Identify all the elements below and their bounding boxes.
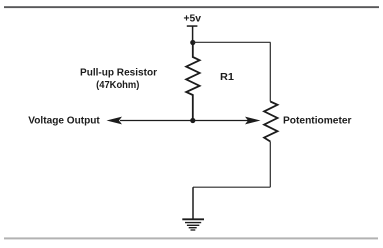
- wire: wiper line left segment: [120, 120, 193, 122]
- resistor R1 (zigzag): [186, 43, 199, 121]
- svg-text:Pull-up Resistor: Pull-up Resistor: [80, 66, 157, 78]
- wire: ground drop: [192, 187, 194, 219]
- wire: top horizontal from node A to right branch: [193, 41, 271, 43]
- wire: right vertical down to potentiometer top: [269, 42, 271, 101]
- svg-text:Voltage Output: Voltage Output: [28, 115, 100, 127]
- svg-text:(47Kohm): (47Kohm): [96, 79, 139, 91]
- +5v power terminal bar: [187, 25, 198, 27]
- wire: wiper line right segment: [193, 120, 249, 122]
- wire: potentiometer bottom down: [269, 142, 271, 188]
- svg-text:Potentiometer: Potentiometer: [283, 114, 352, 126]
- arrowhead right (to potentiometer wiper): [245, 117, 261, 125]
- wire: bottom horizontal to ground branch: [193, 186, 270, 188]
- svg-text:R1: R1: [220, 71, 234, 83]
- potentiometer (zigzag): [264, 102, 277, 142]
- arrowhead left (to Voltage Output): [107, 117, 123, 125]
- ground symbol: [182, 219, 204, 230]
- wire: +5v terminal down to node A: [192, 26, 194, 43]
- svg-text:+5v: +5v: [184, 12, 202, 24]
- node A junction dot (top of R1): [190, 40, 195, 45]
- node B junction dot (bottom of R1 / wiper line): [190, 118, 195, 123]
